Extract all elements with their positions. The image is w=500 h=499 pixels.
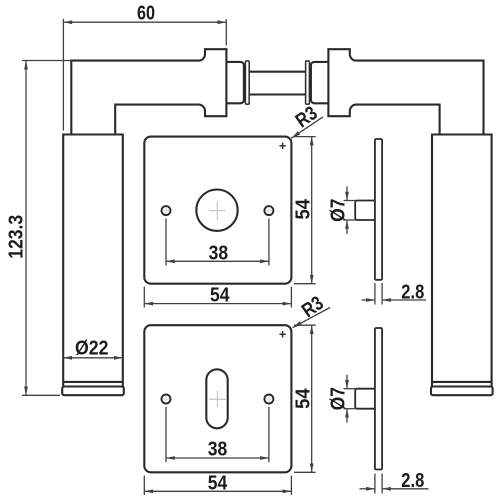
svg-text:54: 54 <box>292 388 314 409</box>
lower rose plate <box>144 325 291 472</box>
svg-text:60: 60 <box>137 2 155 24</box>
left bearing collar <box>226 62 244 103</box>
svg-text:Ø7: Ø7 <box>327 199 349 222</box>
lower rose key hole crosshair <box>209 391 226 408</box>
dimension 54 (lower rose height) <box>292 325 315 472</box>
upper rose left screw hole <box>162 206 171 215</box>
svg-text:54: 54 <box>292 198 314 219</box>
dimension 2.8 (upper) <box>362 281 427 304</box>
right lever outline (neck and arm) <box>328 49 483 134</box>
radius R3 (lower rose) <box>293 292 331 328</box>
svg-text:Ø22: Ø22 <box>75 338 109 360</box>
left lever outline (neck and arm) <box>71 49 226 134</box>
svg-text:2.8: 2.8 <box>401 281 424 303</box>
upper side fixing pin <box>355 201 375 221</box>
right grip end cap <box>431 387 493 396</box>
dimension 54 (upper rose width) <box>144 285 291 308</box>
dimension Ø7 (upper) <box>327 187 356 235</box>
right lever grip tube <box>432 135 492 387</box>
lower rose key hole <box>206 369 227 428</box>
left spindle ring <box>245 61 249 104</box>
dimension Ø7 (lower) <box>327 375 356 423</box>
dimension 60 (top) <box>63 2 226 130</box>
lower side fixing pin <box>355 389 375 409</box>
svg-text:Ø7: Ø7 <box>327 387 349 410</box>
radius R3 (upper rose) <box>291 102 323 138</box>
svg-text:123.3: 123.3 <box>5 215 27 259</box>
upper rose right screw hole <box>264 206 273 215</box>
svg-text:54: 54 <box>208 472 228 494</box>
svg-text:38: 38 <box>208 439 228 461</box>
right bearing collar <box>311 62 329 103</box>
upper rose plate <box>144 137 291 284</box>
lower rose corner mark <box>279 331 285 337</box>
dimension Ø22 <box>63 338 123 360</box>
right spindle ring <box>306 61 310 104</box>
dimension 54 (upper rose height) <box>292 137 315 284</box>
dimension 2.8 (lower) <box>360 470 429 493</box>
lower rose side profile <box>375 328 382 470</box>
svg-text:54: 54 <box>210 285 230 307</box>
dimension 54 (lower rose width) <box>144 472 291 495</box>
upper rose corner mark <box>279 143 285 149</box>
left lever grip tube <box>63 135 123 387</box>
spindle shaft <box>249 72 306 95</box>
upper rose spindle hole <box>196 190 237 231</box>
left grip end cap <box>62 387 124 396</box>
upper rose spindle hole crosshair <box>209 201 226 220</box>
dimension 38 (upper rose) <box>166 218 269 265</box>
dimension 123.3 (left) <box>5 61 71 396</box>
lower rose left screw hole <box>162 395 171 404</box>
lower rose right screw hole <box>264 395 273 404</box>
svg-text:2.8: 2.8 <box>401 470 424 492</box>
svg-text:38: 38 <box>209 243 229 265</box>
upper rose side profile <box>375 139 382 280</box>
dimension 38 (lower rose) <box>166 407 269 462</box>
